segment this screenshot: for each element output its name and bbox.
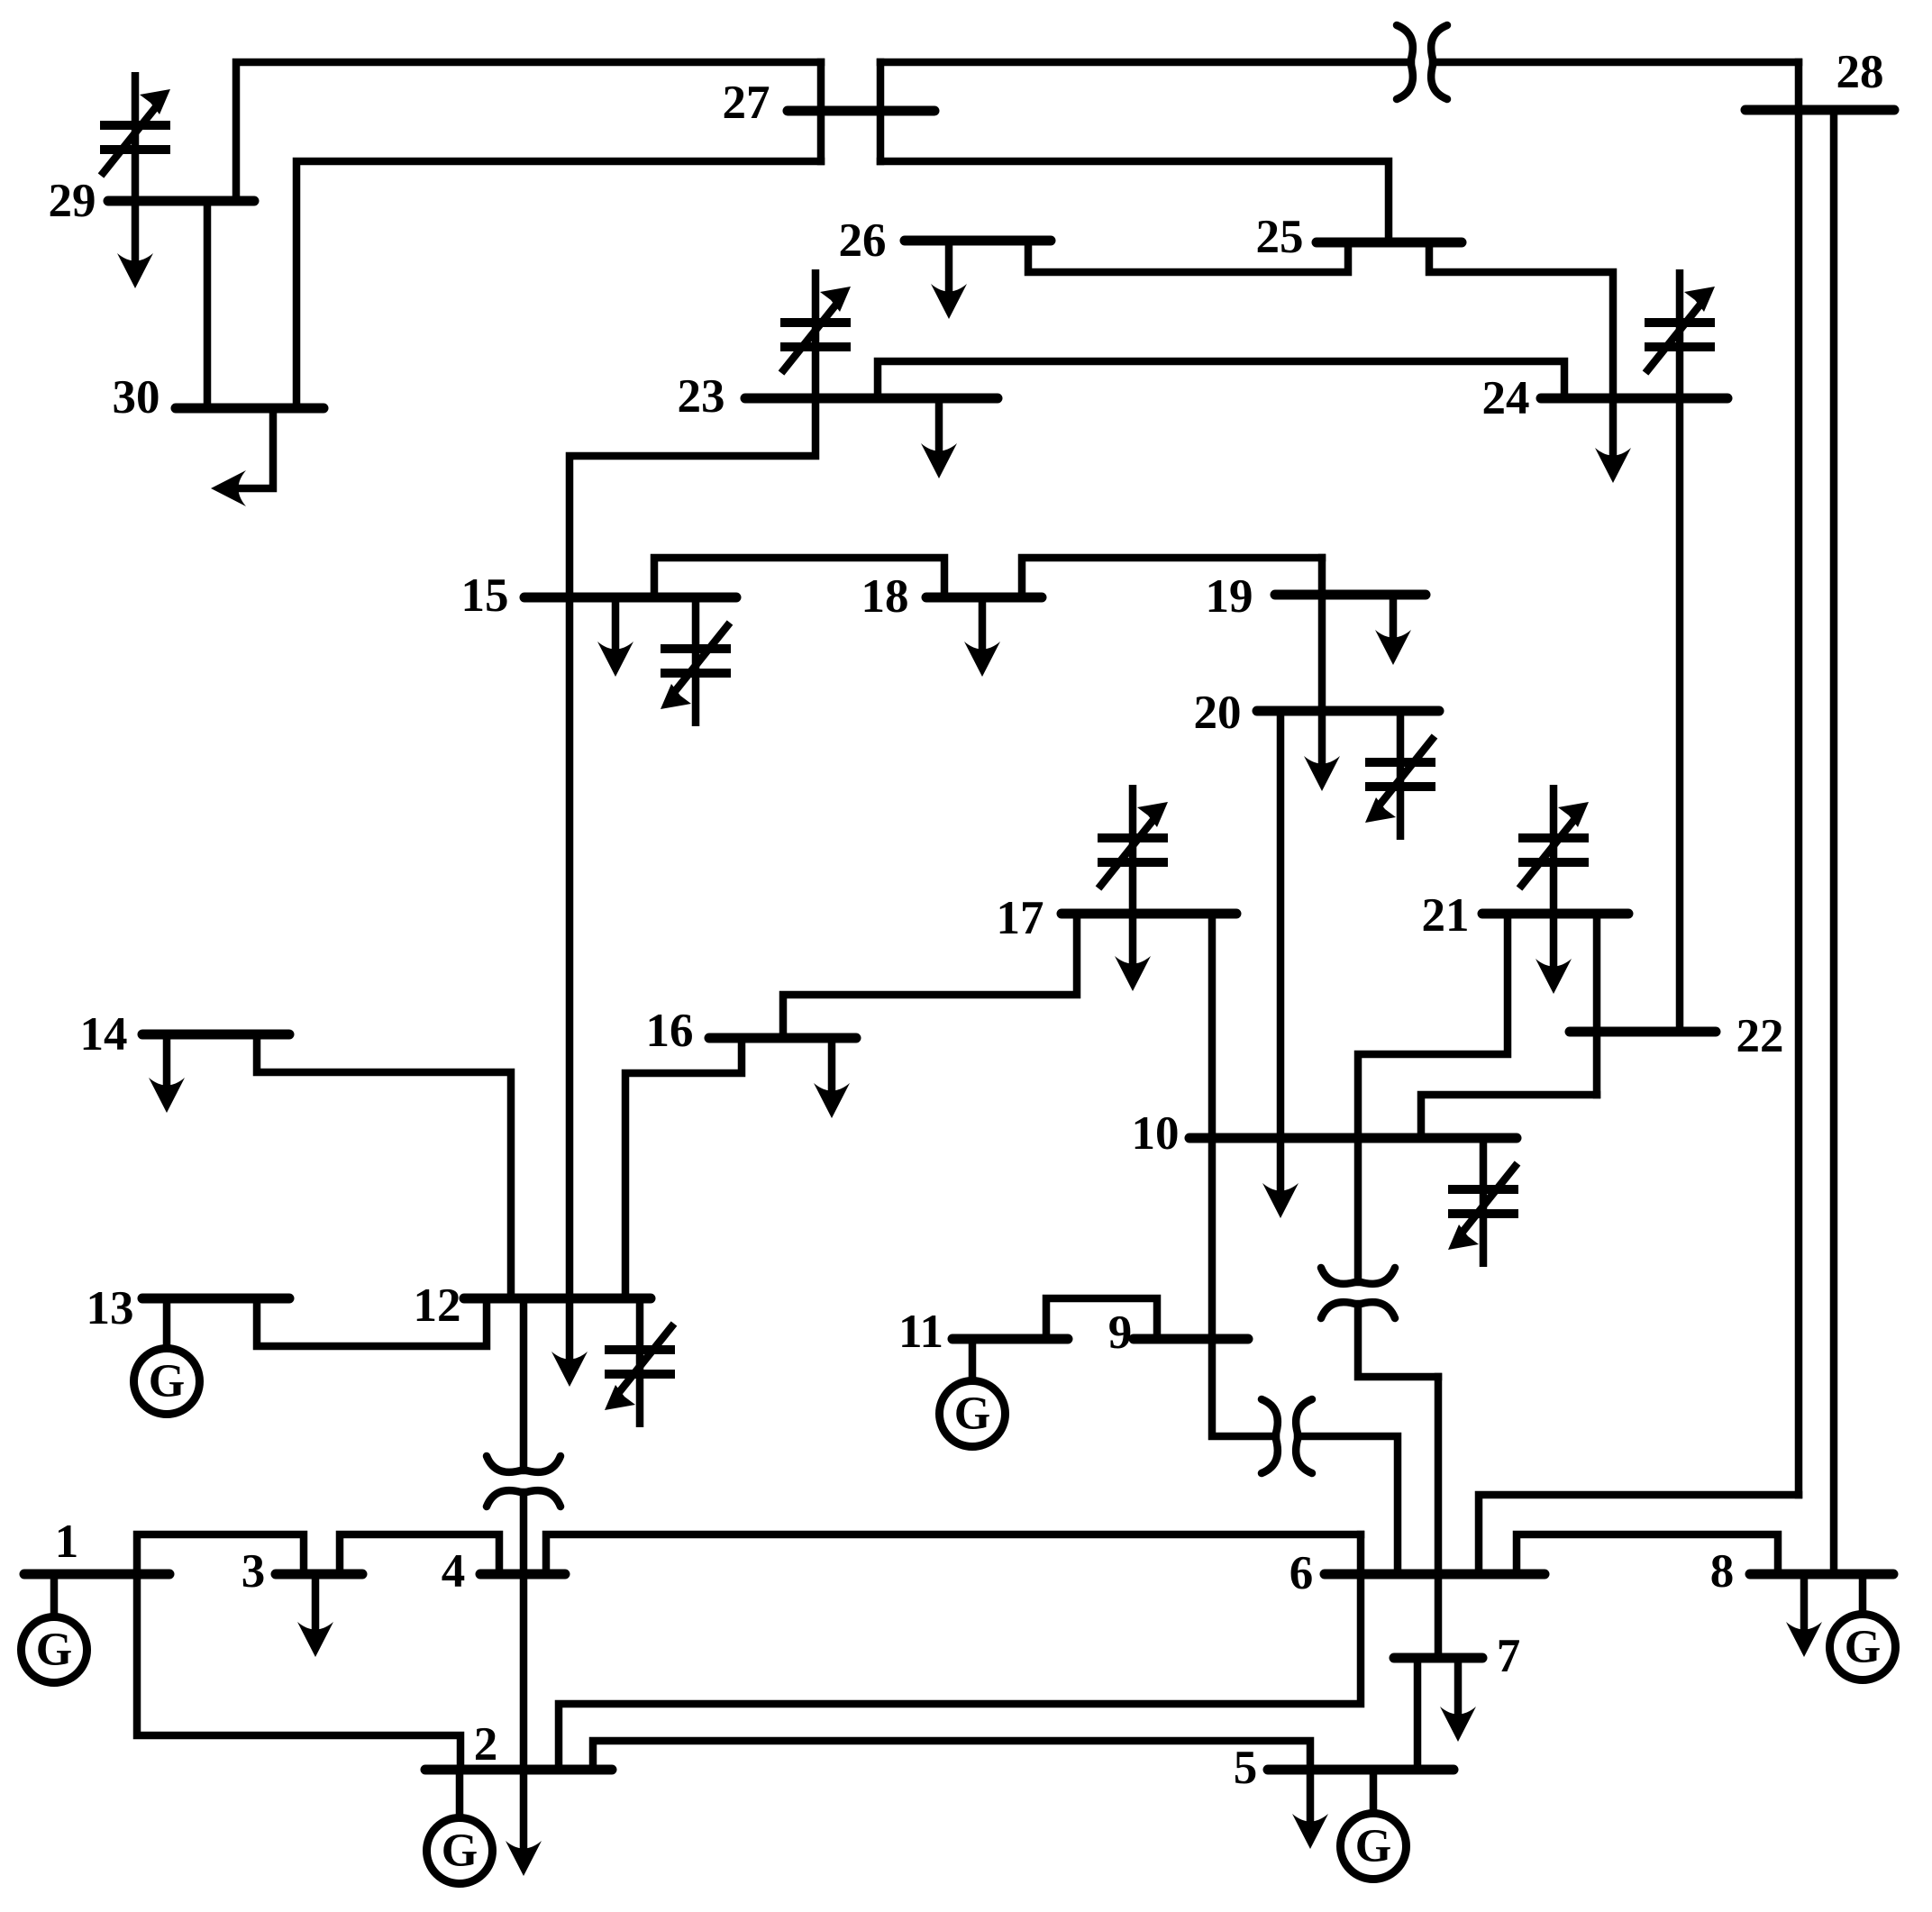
bus 18 xyxy=(926,593,1042,603)
wire 12-16 xyxy=(625,1038,742,1298)
svg-text:16: 16 xyxy=(646,1005,694,1057)
wire 2-6 xyxy=(559,1534,1361,1770)
wire 25-26 xyxy=(1028,241,1348,272)
svg-text:6: 6 xyxy=(1290,1547,1314,1599)
wire 10-22 xyxy=(1421,1095,1597,1138)
svg-text:27: 27 xyxy=(723,77,770,129)
svg-text:23: 23 xyxy=(678,370,725,423)
load arrow bus 16 xyxy=(828,1038,836,1091)
load arrow bus 14 xyxy=(163,1034,171,1086)
svg-text:9: 9 xyxy=(1108,1307,1133,1359)
load arrow bus 8 xyxy=(1800,1574,1809,1630)
transformer T 6-10 xyxy=(1321,1268,1395,1284)
wire 21-22 xyxy=(1593,914,1601,1095)
load arrow bus 21 xyxy=(1550,914,1558,967)
wire 15-23 xyxy=(570,398,816,1298)
svg-text:2: 2 xyxy=(474,1718,498,1771)
svg-text:G: G xyxy=(1355,1821,1391,1872)
load arrow bus 15 xyxy=(612,597,620,650)
wire 12-13 xyxy=(257,1298,487,1346)
bus 13 xyxy=(142,1294,289,1304)
bus 14 xyxy=(142,1030,289,1040)
shunt capacitor bus 29 xyxy=(132,72,140,201)
svg-text:G: G xyxy=(954,1388,990,1440)
wire 10-20 xyxy=(1277,711,1285,1138)
wire 3-4 xyxy=(340,1534,499,1574)
svg-text:4: 4 xyxy=(442,1545,466,1598)
load arrow bus 5 xyxy=(1307,1770,1315,1822)
load arrow bus 17 xyxy=(1129,914,1137,964)
wire 28-8 vertical xyxy=(1830,110,1838,1574)
bus 21 xyxy=(1482,909,1628,919)
svg-text:8: 8 xyxy=(1710,1545,1735,1598)
shunt capacitor bus 20 xyxy=(1397,711,1405,840)
generator G bus 2 xyxy=(456,1770,464,1818)
transformer T 9-6 xyxy=(1262,1399,1278,1473)
wire 10-21 xyxy=(1358,914,1508,1138)
bus 25 xyxy=(1317,238,1462,248)
wire 5-7 xyxy=(1414,1658,1422,1770)
transformer T 4-12 xyxy=(487,1456,560,1472)
generator G bus 13 xyxy=(163,1298,171,1349)
svg-text:24: 24 xyxy=(1482,372,1530,424)
svg-text:5: 5 xyxy=(1234,1742,1258,1794)
wire 29-30 xyxy=(204,201,212,408)
wire 1-2 xyxy=(137,1574,460,1770)
svg-text:12: 12 xyxy=(414,1279,461,1332)
bus 19 xyxy=(1275,590,1426,600)
svg-text:17: 17 xyxy=(997,892,1044,944)
svg-text:25: 25 xyxy=(1256,211,1304,263)
shunt capacitor bus 17 xyxy=(1129,785,1137,914)
load arrow bus 20 xyxy=(1318,711,1326,764)
svg-text:G: G xyxy=(149,1356,185,1407)
bus 7 xyxy=(1394,1653,1482,1663)
bus 30 xyxy=(176,404,324,414)
wire 1-3 xyxy=(137,1534,304,1574)
wire 17-10-9 xyxy=(1212,914,1276,1436)
wire 18-19 xyxy=(1022,558,1322,597)
wire 23-24 xyxy=(878,361,1564,398)
wire 16-17 xyxy=(783,914,1077,1038)
svg-text:3: 3 xyxy=(241,1545,266,1598)
wire 27-29 xyxy=(236,62,821,201)
svg-text:15: 15 xyxy=(461,569,509,622)
wire 6-8 xyxy=(1517,1534,1778,1574)
generator G bus 5 xyxy=(1370,1770,1378,1814)
wire 2-5 xyxy=(593,1741,1310,1770)
svg-text:10: 10 xyxy=(1132,1107,1180,1160)
bus 12 xyxy=(464,1294,651,1304)
wire 27-28 right xyxy=(1433,59,1799,67)
load arrow bus 12 xyxy=(566,1298,574,1360)
wire 12-4 upper xyxy=(520,1298,528,1470)
svg-text:22: 22 xyxy=(1736,1010,1784,1062)
shunt capacitor bus 12 xyxy=(636,1298,644,1427)
wire node bus27 right riser xyxy=(877,62,885,161)
load arrow bus 18 xyxy=(979,597,987,650)
bus 16 xyxy=(709,1033,856,1043)
load arrow bus 3 xyxy=(312,1574,320,1630)
generator G bus 11 xyxy=(969,1339,977,1381)
svg-text:18: 18 xyxy=(861,570,909,623)
wire 12-14 xyxy=(257,1034,511,1298)
bus 23 xyxy=(745,394,998,404)
wire 6-10 upper xyxy=(1354,1138,1362,1282)
wire 6-28 link xyxy=(1479,1495,1799,1574)
svg-text:G: G xyxy=(36,1625,72,1676)
load arrow bus 19 xyxy=(1390,595,1398,638)
wire 22-24 xyxy=(1676,398,1684,1032)
bus 2 xyxy=(425,1765,612,1775)
wire 9-6 right xyxy=(1298,1436,1398,1574)
bus 8 xyxy=(1750,1570,1893,1580)
shunt capacitor bus 21 xyxy=(1550,785,1558,914)
wire 28-6 vertical xyxy=(1795,62,1803,1495)
load arrow bus 24 xyxy=(1609,398,1618,456)
svg-text:19: 19 xyxy=(1206,570,1253,623)
svg-text:21: 21 xyxy=(1422,889,1470,942)
generator G bus 1 xyxy=(50,1574,59,1617)
bus 5 xyxy=(1268,1765,1454,1775)
wire 25-27 xyxy=(880,161,1389,242)
svg-text:29: 29 xyxy=(49,175,96,227)
svg-text:G: G xyxy=(442,1826,478,1877)
load arrow bus 10 xyxy=(1277,1138,1285,1191)
bus 24 xyxy=(1541,394,1727,404)
wire 19-20 xyxy=(1318,558,1326,711)
bus 28 xyxy=(1745,105,1894,115)
svg-text:30: 30 xyxy=(113,371,160,423)
svg-text:28: 28 xyxy=(1836,46,1884,98)
bus 10 xyxy=(1189,1134,1517,1143)
generator G bus 8 xyxy=(1859,1574,1867,1615)
svg-text:G: G xyxy=(1845,1622,1881,1673)
wire 6-10 lower xyxy=(1358,1304,1438,1377)
bus 15 xyxy=(524,593,736,603)
svg-text:13: 13 xyxy=(87,1282,134,1334)
bus 3 xyxy=(276,1570,362,1580)
wire 6-7 xyxy=(1435,1377,1443,1658)
bus 6 xyxy=(1325,1570,1545,1580)
svg-text:20: 20 xyxy=(1194,687,1242,739)
svg-text:1: 1 xyxy=(55,1516,79,1568)
load arrow bus 7 xyxy=(1454,1658,1463,1715)
bus 20 xyxy=(1257,706,1439,716)
wire node bus27 left riser xyxy=(817,62,825,161)
load arrow bus 26 xyxy=(945,241,953,292)
bus 29 xyxy=(108,196,254,206)
svg-text:7: 7 xyxy=(1497,1630,1521,1682)
wire 15-18 xyxy=(654,558,944,597)
wire 9-11 xyxy=(1046,1298,1157,1339)
transformer T 28-27 xyxy=(1397,25,1413,99)
wire 24-25 xyxy=(1429,242,1613,398)
bus 11 xyxy=(952,1334,1068,1344)
wire 27-28 left xyxy=(880,59,1411,67)
bus 26 xyxy=(905,236,1051,246)
shunt capacitor bus 15 xyxy=(692,597,700,726)
shunt capacitor bus 23 xyxy=(812,269,820,398)
bus 22 xyxy=(1570,1027,1716,1037)
shunt capacitor bus 10 xyxy=(1480,1138,1488,1267)
wire 4-6 xyxy=(546,1534,1361,1574)
load arrow bus 29 xyxy=(132,201,140,261)
bus 17 xyxy=(1062,909,1236,919)
svg-text:11: 11 xyxy=(898,1306,943,1358)
load arrow bus 2 xyxy=(520,1770,528,1849)
wire 4-2 xyxy=(520,1492,528,1770)
shunt capacitor bus 24 xyxy=(1676,269,1684,398)
bus 27 xyxy=(788,106,934,116)
bus 1 xyxy=(24,1570,169,1580)
bus 9 xyxy=(1134,1334,1248,1344)
bus 4 xyxy=(480,1570,565,1580)
wire 27-30 xyxy=(296,161,821,408)
svg-text:26: 26 xyxy=(839,214,887,267)
load arrow bus 23 xyxy=(935,398,943,451)
svg-text:14: 14 xyxy=(80,1008,128,1061)
load arrow bus 30 xyxy=(234,408,273,488)
